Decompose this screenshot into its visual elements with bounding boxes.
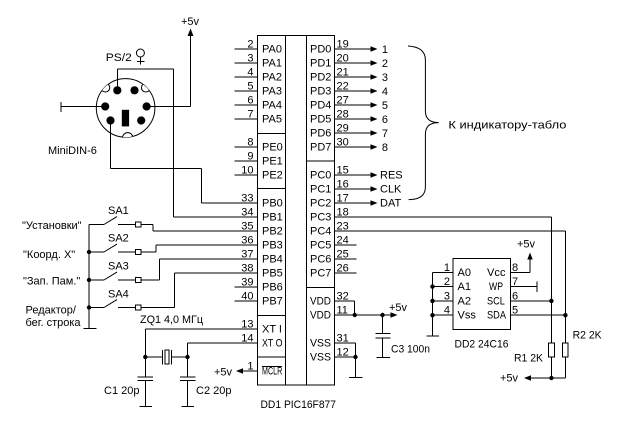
svg-text:PE2: PE2 xyxy=(262,170,283,182)
resistor R2 2K xyxy=(563,330,603,379)
wire DD1 PC4 pin23 to SDA and R2 xyxy=(335,231,568,343)
switch SA2 xyxy=(89,233,258,255)
svg-text:PB7: PB7 xyxy=(262,296,283,308)
svg-text:A1: A1 xyxy=(458,281,471,293)
svg-text:PC2: PC2 xyxy=(310,198,331,210)
brace to indicator board xyxy=(408,46,439,200)
svg-text:35: 35 xyxy=(241,221,253,233)
svg-text:R2 2K: R2 2K xyxy=(573,330,603,342)
svg-text:8: 8 xyxy=(247,137,253,149)
svg-text:+5v: +5v xyxy=(517,239,536,251)
svg-text:33: 33 xyxy=(241,193,253,205)
crystal ZQ1 4,0 MHz xyxy=(140,314,204,365)
svg-text:"Коорд. Х": "Коорд. Х" xyxy=(23,249,75,261)
wire DD2 SDA pin 5 xyxy=(511,314,566,316)
svg-text:PC5: PC5 xyxy=(310,240,331,252)
DD1 right port labels xyxy=(310,44,331,364)
svg-text:+5v: +5v xyxy=(181,16,200,28)
svg-text:PD3: PD3 xyxy=(310,86,331,98)
svg-text:8: 8 xyxy=(382,142,388,154)
svg-text:VSS: VSS xyxy=(310,352,331,364)
svg-text:VDD: VDD xyxy=(310,296,331,308)
wire DD1 VDD pins 32,11 to +5v xyxy=(335,301,408,318)
svg-text:VSS: VSS xyxy=(310,338,331,350)
svg-text:PD7: PD7 xyxy=(310,142,331,154)
IC DD1 PIC16F877 body xyxy=(258,36,335,386)
wire DD1 XTI to crystal xyxy=(145,329,257,357)
label Ustanovki xyxy=(22,220,82,232)
svg-text:SDA: SDA xyxy=(487,310,507,322)
svg-text:SCL: SCL xyxy=(487,295,505,307)
power +5v top xyxy=(181,16,200,107)
svg-text:MiniDIN-6: MiniDIN-6 xyxy=(48,145,97,157)
svg-text:VDD: VDD xyxy=(310,310,331,322)
svg-text:3: 3 xyxy=(382,72,388,84)
svg-text:37: 37 xyxy=(241,249,253,261)
svg-text:PC3: PC3 xyxy=(310,212,331,224)
wire PS/2 pin4 to +5v xyxy=(147,106,191,108)
wire DD1 XTO to crystal xyxy=(188,343,258,357)
svg-text:DAT: DAT xyxy=(380,198,401,210)
svg-text:6: 6 xyxy=(382,114,388,126)
svg-text:PC1: PC1 xyxy=(310,184,331,196)
svg-text:C1 20p: C1 20p xyxy=(104,385,139,397)
svg-text:SA3: SA3 xyxy=(108,261,129,273)
svg-text:PD0: PD0 xyxy=(310,44,331,56)
svg-text:MCLR: MCLR xyxy=(262,366,282,378)
wire DD1 PC3 pin18 to SCL and R1 xyxy=(335,217,554,343)
label PS/2 female xyxy=(106,49,145,65)
svg-text:"Установки": "Установки" xyxy=(22,220,82,232)
svg-text:PE1: PE1 xyxy=(262,156,283,168)
label DD2 24C16 xyxy=(455,339,509,351)
svg-text:PD1: PD1 xyxy=(310,58,331,70)
svg-text:PA4: PA4 xyxy=(262,100,282,112)
DD2 pin numbers xyxy=(444,262,518,317)
svg-text:+5v: +5v xyxy=(214,367,233,379)
wires PC0-PC2 arrows RES CLK DAT xyxy=(335,170,403,210)
svg-text:A2: A2 xyxy=(458,295,471,307)
svg-text:5: 5 xyxy=(247,81,253,93)
wires PD0-PD7 output arrows 1-8 xyxy=(335,44,389,154)
DD1 right pin numbers xyxy=(337,39,349,359)
label Redaktor / beg stroka xyxy=(26,305,82,329)
switch SA4 xyxy=(89,273,258,310)
svg-text:SA2: SA2 xyxy=(108,233,129,245)
svg-text:PC0: PC0 xyxy=(310,170,331,182)
label Koord X xyxy=(23,249,75,261)
wire PS/2 pin3 left terminal xyxy=(61,102,105,112)
svg-text:38: 38 xyxy=(241,263,253,275)
svg-text:SA4: SA4 xyxy=(108,288,129,300)
svg-text:ZQ1 4,0 МГц: ZQ1 4,0 МГц xyxy=(140,314,204,326)
wire DD2 WP pin 7 terminal xyxy=(511,282,538,293)
svg-text:DD1 PIC16F877: DD1 PIC16F877 xyxy=(261,399,337,411)
svg-text:40: 40 xyxy=(241,291,253,303)
svg-text:2: 2 xyxy=(382,58,388,70)
svg-text:XT I: XT I xyxy=(262,324,282,336)
wire DD2 SCL pin 6 xyxy=(511,300,552,302)
DD1 PC5-PC7 stubs xyxy=(335,245,357,273)
power +5v at MCLR pin 1 xyxy=(214,367,258,379)
svg-text:+5v: +5v xyxy=(389,302,408,314)
svg-text:PS/2: PS/2 xyxy=(106,52,132,64)
svg-text:6: 6 xyxy=(247,95,253,107)
label Zap Pam xyxy=(23,276,80,288)
svg-text:PB5: PB5 xyxy=(262,268,283,280)
wire PS/2 pin1 to DD1 PB1 xyxy=(117,69,257,217)
power +5v bottom rail xyxy=(500,373,565,385)
svg-text:C2 20p: C2 20p xyxy=(196,385,231,397)
svg-text:PA1: PA1 xyxy=(262,58,282,70)
svg-text:"Зап. Пам.": "Зап. Пам." xyxy=(23,276,80,288)
svg-text:Редактор/: Редактор/ xyxy=(26,305,77,317)
svg-text:DD2 24C16: DD2 24C16 xyxy=(455,339,509,351)
svg-text:PC4: PC4 xyxy=(310,226,331,238)
svg-text:3: 3 xyxy=(247,53,253,65)
svg-text:PD2: PD2 xyxy=(310,72,331,84)
svg-text:SA1: SA1 xyxy=(108,205,129,217)
connector PS/2 MiniDIN-6 socket xyxy=(96,79,155,143)
svg-text:PC7: PC7 xyxy=(310,268,331,280)
svg-text:PA2: PA2 xyxy=(262,72,282,84)
wire DD2 address pins common bus to ground xyxy=(426,272,453,336)
svg-text:Vss: Vss xyxy=(458,310,477,322)
svg-text:9: 9 xyxy=(247,151,253,163)
svg-text:PB3: PB3 xyxy=(262,240,283,252)
svg-text:36: 36 xyxy=(241,235,253,247)
capacitor C1 20p xyxy=(104,357,153,407)
resistor R1 2K xyxy=(514,343,554,378)
svg-text:7: 7 xyxy=(382,128,388,140)
svg-text:+5v: +5v xyxy=(500,373,519,385)
svg-text:PA3: PA3 xyxy=(262,86,282,98)
svg-text:2: 2 xyxy=(247,39,253,51)
svg-text:PD6: PD6 xyxy=(310,128,331,140)
svg-text:PC6: PC6 xyxy=(310,254,331,266)
svg-text:XT O: XT O xyxy=(262,338,283,350)
svg-text:34: 34 xyxy=(241,207,253,219)
svg-text:4: 4 xyxy=(382,86,388,98)
switch SA3 xyxy=(89,259,258,283)
svg-text:WP: WP xyxy=(489,281,503,293)
svg-text:PB0: PB0 xyxy=(262,198,283,210)
svg-text:39: 39 xyxy=(241,277,253,289)
svg-text:4: 4 xyxy=(247,67,253,79)
IC DD2 24C16 body xyxy=(453,259,511,330)
wire PS/2 pin5 to DD1 PB0 xyxy=(111,121,258,204)
svg-text:PE0: PE0 xyxy=(262,142,283,154)
svg-text:PA0: PA0 xyxy=(262,44,282,56)
svg-text:PB2: PB2 xyxy=(262,226,283,238)
DD1 left port labels xyxy=(262,44,283,378)
svg-text:R1 2K: R1 2K xyxy=(514,353,544,365)
svg-text:13: 13 xyxy=(241,319,253,331)
power +5v at DD2 Vcc pin 8 xyxy=(511,239,536,273)
svg-text:бег. строка: бег. строка xyxy=(26,317,82,329)
svg-text:PD4: PD4 xyxy=(310,100,331,112)
svg-text:PB4: PB4 xyxy=(262,254,283,266)
svg-text:14: 14 xyxy=(241,333,253,345)
capacitor C2 20p xyxy=(180,357,232,407)
label MiniDIN-6 xyxy=(48,145,97,157)
svg-text:10: 10 xyxy=(241,165,253,177)
DD1 left pin stubs and numbers xyxy=(235,39,258,373)
svg-text:1: 1 xyxy=(382,44,388,56)
svg-text:CLK: CLK xyxy=(380,184,402,196)
svg-text:PD5: PD5 xyxy=(310,114,331,126)
svg-text:PB6: PB6 xyxy=(262,282,283,294)
svg-text:PA5: PA5 xyxy=(262,114,282,126)
svg-text:5: 5 xyxy=(382,100,388,112)
label DD1 PIC16F877 xyxy=(261,399,337,411)
svg-text:Vcc: Vcc xyxy=(487,267,506,279)
svg-text:PB1: PB1 xyxy=(262,212,283,224)
svg-text:К индикатору-табло: К индикатору-табло xyxy=(448,119,566,131)
wire DD1 VSS pins 31,12 to ground xyxy=(335,343,363,378)
capacitor C3 100n with ground tick xyxy=(376,315,430,357)
label K indikatoru-tablo xyxy=(448,119,566,131)
svg-text:7: 7 xyxy=(247,109,253,121)
svg-text:C3 100n: C3 100n xyxy=(391,344,430,356)
svg-text:A0: A0 xyxy=(458,267,471,279)
svg-text:RES: RES xyxy=(380,170,403,182)
switch SA1 xyxy=(89,205,258,231)
node switch common bus with ground tick xyxy=(84,225,97,329)
